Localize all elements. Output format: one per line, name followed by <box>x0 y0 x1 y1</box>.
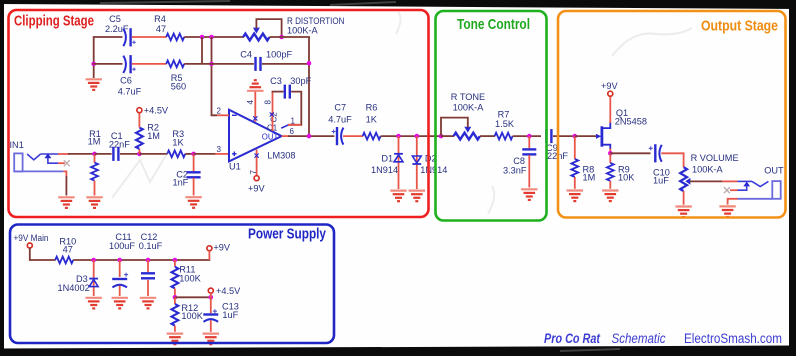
wire R7 to C8 node <box>513 135 541 137</box>
svg-text:R4: R4 <box>154 14 166 24</box>
wire pot right to R7 <box>480 135 495 137</box>
node R11 <box>173 258 178 263</box>
svg-text:100K: 100K <box>179 273 201 283</box>
node C2 junction <box>191 152 196 157</box>
potentiometer R VOLUME 100K-A <box>680 153 738 205</box>
node distortion wiper/right <box>279 35 284 40</box>
wire pin 6 to C7 <box>288 135 334 137</box>
svg-text:Output Stage: Output Stage <box>701 18 778 35</box>
capacitor C8 3.3nF <box>503 136 536 187</box>
svg-text:+4.5V: +4.5V <box>216 286 241 296</box>
svg-text:Power Supply: Power Supply <box>248 226 327 243</box>
svg-text:1nF: 1nF <box>172 178 188 188</box>
node tone pot left <box>439 134 444 139</box>
capacitor C4 100pF <box>240 50 292 71</box>
node C11 <box>117 258 122 263</box>
svg-text:D1: D1 <box>381 153 393 163</box>
node Q1 source <box>608 151 613 156</box>
ground (R8) <box>567 191 583 202</box>
node feedback B <box>209 35 214 40</box>
node +4.5V divider <box>173 295 178 300</box>
faint watermark traces <box>112 12 692 214</box>
ground (R12) <box>167 334 183 345</box>
svg-text:1uF: 1uF <box>653 175 669 185</box>
svg-text:R DISTORTION: R DISTORTION <box>287 16 345 26</box>
potentiometer R TONE 100K-A <box>441 92 485 140</box>
node D1 <box>396 134 401 139</box>
svg-text:1K: 1K <box>172 138 184 148</box>
svg-text:1N4002: 1N4002 <box>58 283 90 293</box>
pin 8 wire up to C3 <box>272 92 274 131</box>
pin 1 stub <box>281 125 288 128</box>
ground (OUT sleeve) <box>719 206 735 217</box>
wire C3 to pin 1 <box>288 92 301 125</box>
node D2 <box>415 134 420 139</box>
svg-text:+4.5V: +4.5V <box>144 105 169 115</box>
pin 6 stub <box>282 135 289 137</box>
wire source node to C10 <box>610 152 650 154</box>
wire R1 node to C1 <box>95 153 112 155</box>
svg-text:10K: 10K <box>618 172 635 182</box>
node R1/C1 junction <box>92 152 97 157</box>
power supply box <box>10 225 334 344</box>
svg-text:C5: C5 <box>109 14 121 24</box>
ground (D1) <box>390 191 406 202</box>
resistor R7 1.5K <box>495 109 515 139</box>
ground (R VOLUME) <box>675 207 691 218</box>
connector OUT jack <box>730 165 784 199</box>
power +4.5V (R2) <box>137 108 142 113</box>
node D3 <box>91 258 96 263</box>
wire C4 to output net <box>262 63 310 65</box>
resistor R10 47 <box>55 237 76 264</box>
power +9V terminal <box>207 246 212 251</box>
wire pot right to output net <box>270 37 310 136</box>
node C13 <box>209 295 214 300</box>
capacitor C2 1nF <box>172 154 200 196</box>
wire source to node <box>609 149 611 155</box>
ground (C2) <box>185 197 201 208</box>
wire node A down to row2 <box>201 37 203 64</box>
wire R6 to diodes and tone <box>381 135 442 137</box>
capacitor C13 1uF <box>203 297 239 332</box>
resistor R1 1M <box>88 129 101 195</box>
svg-text:C3: C3 <box>270 76 282 86</box>
svg-text:47: 47 <box>63 245 73 255</box>
resistor R12 100K <box>172 297 204 332</box>
svg-text:R7: R7 <box>498 109 510 119</box>
power +9V (pin 7) <box>254 176 259 181</box>
capacitor C10 1uF <box>649 144 670 185</box>
svg-text:R6: R6 <box>366 103 378 113</box>
wire R10 to rail <box>73 259 210 261</box>
wire to C5 <box>93 36 123 38</box>
ground (C8) <box>521 189 537 200</box>
wire C1 to R2 node <box>120 153 140 155</box>
svg-text:Tone Control: Tone Control <box>457 16 530 33</box>
svg-text:R VOLUME: R VOLUME <box>691 153 739 163</box>
capacitor C11 100uF <box>109 232 135 296</box>
svg-text:47: 47 <box>156 24 166 34</box>
svg-text:7: 7 <box>249 170 258 175</box>
svg-text:4: 4 <box>246 100 255 105</box>
wire R2 node to R3 <box>139 153 167 155</box>
svg-text:100uF: 100uF <box>109 241 135 251</box>
capacitor C3 30pF <box>270 76 312 99</box>
svg-text:OUT: OUT <box>764 165 784 175</box>
svg-text:1N914: 1N914 <box>420 165 447 175</box>
svg-text:30pF: 30pF <box>290 76 311 86</box>
svg-text:1M: 1M <box>88 137 101 147</box>
svg-text:1.5K: 1.5K <box>495 119 515 129</box>
connector IN1 jack <box>10 140 65 171</box>
wire row2 node to C4 <box>212 63 254 65</box>
capacitor C12 0.1uF <box>139 232 163 296</box>
svg-text:Schematic: Schematic <box>612 331 666 346</box>
wire divider row <box>175 296 211 298</box>
capacitor C7 4.7uF <box>328 103 352 146</box>
node C4/output vertical <box>307 61 312 66</box>
svg-text:C6: C6 <box>120 76 132 86</box>
ground (C13) <box>203 334 219 345</box>
pin 3 stub <box>215 153 229 155</box>
ground (pin 4, inverted) <box>247 80 263 91</box>
svg-text:+9V: +9V <box>601 81 618 91</box>
wire C10 to volume pot <box>661 153 683 167</box>
node C12 <box>146 258 151 263</box>
ground (D2) <box>409 191 425 202</box>
wire tone wiper loop <box>441 118 468 136</box>
wire volume wiper to OUT jack <box>690 180 723 182</box>
wire IN1 sleeve to ground <box>63 171 66 177</box>
wire gate to Q1 <box>575 135 597 137</box>
svg-text:+9V Main: +9V Main <box>14 233 49 243</box>
tone control box <box>436 11 547 221</box>
wire IN1 tip to R1 node <box>68 153 96 155</box>
svg-text:C7: C7 <box>334 103 346 113</box>
svg-text:2N5458: 2N5458 <box>615 116 647 126</box>
svg-text:0.1uF: 0.1uF <box>139 241 163 251</box>
node feedback A <box>200 35 205 40</box>
wire R5 to row2 node <box>184 63 212 65</box>
pin 4 wire to ground above <box>254 92 256 122</box>
svg-text:Clipping Stage: Clipping Stage <box>14 13 94 30</box>
svg-text:3.3nF: 3.3nF <box>503 165 527 175</box>
grey streaks on frame <box>100 1 620 351</box>
wire R4 to feedback node <box>184 36 244 38</box>
node C8 <box>527 134 532 139</box>
node Q1 gate <box>573 134 578 139</box>
svg-text:OUT: OUT <box>262 132 279 141</box>
power +9V (Q1) <box>608 91 613 96</box>
resistor R5 560 <box>166 61 186 92</box>
pin 2 stub <box>217 114 229 116</box>
ground (C12) <box>140 298 156 309</box>
op-amp U1 LM308 <box>229 110 295 172</box>
svg-text:100K-A: 100K-A <box>453 103 485 113</box>
wire C7 to R6 <box>343 135 363 137</box>
ground (IN1 sleeve) <box>58 197 74 208</box>
svg-text:U1: U1 <box>229 162 241 172</box>
svg-text:560: 560 <box>171 82 186 92</box>
svg-text:3: 3 <box>217 145 222 154</box>
wire to C6 <box>93 63 123 65</box>
resistor R8 1M <box>571 136 595 189</box>
jack IN1 unconnected switch mark <box>64 160 70 166</box>
capacitor C1 22nF <box>109 131 130 161</box>
svg-text:100K-A: 100K-A <box>287 25 319 35</box>
node R2 junction <box>137 152 142 157</box>
svg-text:8: 8 <box>263 100 272 105</box>
svg-text:IN1: IN1 <box>10 140 24 150</box>
svg-text:+9V: +9V <box>213 243 230 253</box>
svg-text:6: 6 <box>290 127 295 136</box>
jack OUT unconnected switch mark <box>724 187 730 193</box>
wire C9 to gate node <box>553 135 576 137</box>
svg-text:R TONE: R TONE <box>451 92 485 102</box>
ground (D3) <box>86 298 102 309</box>
svg-text:1M: 1M <box>147 131 160 141</box>
resistor R6 1K <box>363 103 381 140</box>
svg-text:1K: 1K <box>366 114 378 124</box>
gain network ground (C5/C6 left) <box>93 37 95 78</box>
svg-text:4.7uF: 4.7uF <box>328 114 352 124</box>
wire node B down to pin 2 <box>212 37 218 115</box>
power +4.5V terminal <box>208 288 213 293</box>
svg-text:100K-A: 100K-A <box>692 164 724 174</box>
potentiometer R DISTORTION 100K-A <box>243 16 344 41</box>
wire +9V Main to R10 <box>30 248 56 260</box>
svg-text:C4: C4 <box>240 50 252 60</box>
wire C2 node to op-amp pin 3 <box>194 153 216 155</box>
wire C6 to R5 <box>132 63 167 65</box>
svg-text:LM308: LM308 <box>267 151 295 161</box>
capacitor C6 4.7uF <box>118 55 142 96</box>
svg-text:1uF: 1uF <box>222 310 238 320</box>
transistor Q1 2N5458 <box>596 108 647 149</box>
clipping stage box <box>9 10 429 217</box>
capacitor C5 2.2uF <box>105 14 136 47</box>
resistor R11 100K <box>172 260 202 298</box>
svg-text:ElectroSmash.com: ElectroSmash.com <box>684 331 782 346</box>
ground (R1) <box>86 197 102 208</box>
node row2 junction <box>209 62 214 67</box>
wire R3 to C2 node <box>185 153 194 155</box>
svg-text:1: 1 <box>291 116 296 125</box>
resistor R2 1M <box>136 113 160 154</box>
svg-text:4.7uF: 4.7uF <box>118 87 142 97</box>
diode D3 1N4002 <box>58 260 99 296</box>
wire drain to +9V <box>609 96 611 123</box>
svg-text:+9V: +9V <box>248 184 265 194</box>
resistor R4 47 <box>154 14 184 41</box>
wire distortion wiper loop <box>256 19 282 38</box>
capacitor C9 22nF <box>546 129 568 161</box>
svg-text:Pro Co Rat: Pro Co Rat <box>544 331 600 346</box>
output stage box <box>558 11 786 218</box>
resistor R9 10K <box>607 153 635 189</box>
node output/feedback <box>307 134 312 139</box>
diode D1 1N914 <box>371 136 403 189</box>
wire +9V stub <box>208 251 210 260</box>
ground (R9) <box>602 191 618 202</box>
diode D2 1N914 <box>412 136 447 189</box>
pin 7 wire to +9V below <box>256 150 258 176</box>
wire OUT sleeve to ground <box>728 199 738 205</box>
wire C5 to R4 <box>132 36 167 38</box>
svg-text:1M: 1M <box>583 172 596 182</box>
svg-text:100K: 100K <box>181 311 203 321</box>
resistor R3 1K <box>167 129 185 157</box>
svg-text:100pF: 100pF <box>266 50 292 60</box>
svg-text:2: 2 <box>217 106 222 115</box>
wire IN1 tip pin <box>58 153 69 155</box>
svg-text:1N914: 1N914 <box>371 165 398 175</box>
ground (C11) <box>112 298 128 309</box>
wire +4.5V stub <box>210 293 212 297</box>
